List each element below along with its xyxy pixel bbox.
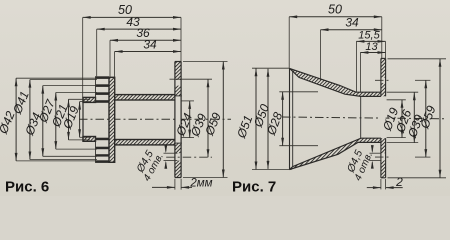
fig7 dimension O19 extensions (387, 99, 406, 101)
fig6 bottom hole axis (166, 156, 212, 158)
fig6 main tube lower wall (115, 140, 176, 145)
fig7 dimension O39 extensions (415, 79, 430, 81)
fig6 ribbed section lower (96, 138, 110, 141)
fig7 dimension 34 (321, 29, 382, 31)
fig7 dimension O50 (267, 69, 269, 169)
fig6 extension line tube start (114, 52, 116, 95)
fig6 hole edge lines (164, 152, 178, 154)
fig6 dimension O34 extension bottom (43, 155, 97, 157)
fig7 top hole axis (375, 79, 391, 81)
fig7 dimension 15,5 (356, 40, 385, 42)
fig7 hole callout arrows (371, 147, 373, 152)
fig7 extension line flange right (385, 41, 387, 58)
fig7 extension line 15,5 (355, 41, 357, 92)
svg-text:2: 2 (395, 175, 403, 189)
fig7 big end face (289, 68, 291, 169)
fig6 dimension O19 extension top (80, 101, 90, 103)
fig6 axis centerline (79, 118, 231, 120)
fig7 dimension O51 extensions (252, 67, 290, 69)
fig6 dimension O34 extension top (43, 85, 97, 87)
fig6 dimension 34 (115, 51, 181, 53)
svg-text:Рис. 7: Рис. 7 (232, 179, 276, 196)
fig7 extension line big end (288, 17, 290, 69)
fig6 dimension O19 (79, 102, 81, 138)
fig6 extension line right face (180, 17, 182, 61)
fig6 extension line rib start (96, 29, 98, 76)
fig7 dimension O26 extensions (387, 91, 419, 93)
fig7 bottom hole axis (375, 156, 391, 158)
fig6 wall thickness 2mm dimension (152, 186, 175, 188)
fig7 axis centerline (282, 117, 446, 119)
fig7 dimension O59 (439, 59, 441, 178)
fig7 hole edge lines (370, 152, 382, 154)
fig6 dimension O24 extensions (182, 100, 195, 102)
fig7 dimension O19 (401, 100, 403, 138)
fig6 dimension O27 extension top (56, 92, 97, 94)
fig6 extension line left end (82, 17, 84, 97)
fig6 flange disc (109, 77, 115, 162)
fig6 dimension 50 (83, 16, 181, 18)
fig6 dimension O59 (222, 62, 224, 178)
fig6 dimension O34 (42, 86, 44, 157)
fig6 dimension O27 extension bottom (56, 148, 97, 150)
fig6 rim flange Ø59 (175, 62, 181, 178)
fig6 dimension O27 (55, 93, 57, 150)
fig6 main tube upper wall (115, 95, 176, 100)
fig6 dimension O19 extension bottom (80, 136, 90, 138)
fig6 rim hole edges (174, 95, 182, 97)
fig6 dimension O42 extension bottom (16, 160, 97, 162)
fig7 dimension O28 extensions (279, 91, 318, 93)
fig7 neck bore end face (360, 96, 362, 138)
fig6 dimension 43 (97, 28, 181, 30)
fig7 dimension O51 (255, 68, 257, 169)
fig6 dimension O41 (29, 80, 31, 160)
svg-text:2мм: 2мм (189, 178, 212, 190)
fig6 dimension O41 extension bottom (30, 159, 97, 161)
fig6 hole callout arrows (165, 147, 167, 152)
fig6 dimension O42 extension top (16, 77, 97, 79)
fig7 flange disc Ø59 (381, 58, 386, 179)
fig7 extension line flange left (381, 17, 383, 59)
fig7 extension line neck start (359, 53, 361, 93)
fig6 dimension O21 extension top (69, 98, 91, 100)
fig6 ribbed section upper (96, 76, 110, 79)
fig6 dimension 36 (110, 39, 181, 41)
fig6 hub left end face (82, 97, 84, 141)
fig7 dimension O39 (425, 80, 427, 157)
fig7 cone upper wall (290, 68, 382, 96)
fig6 dimension O24 (189, 101, 191, 138)
fig7 dimension 13 (360, 52, 385, 54)
fig7 wall thickness extension lines (380, 179, 382, 189)
svg-text:13: 13 (365, 41, 378, 53)
fig6 dimension O42 (15, 78, 17, 161)
svg-text:50: 50 (328, 3, 342, 17)
fig7 dimension 50 (289, 16, 382, 18)
fig7 extension line cone point 34 (320, 30, 322, 80)
svg-text:34: 34 (143, 37, 157, 51)
fig7 dimension O59 extensions (388, 58, 447, 60)
svg-text:34: 34 (345, 16, 359, 30)
fig7 cone lower wall (290, 138, 382, 169)
svg-text:Рис. 6: Рис. 6 (5, 179, 49, 196)
fig6 hub tube lower wall (83, 137, 96, 142)
fig6 dimension O59 extensions (183, 61, 228, 63)
fig7 wall thickness 2 dimension (367, 187, 381, 189)
fig6 dimension O21 extension bottom (69, 139, 91, 141)
fig6 hub tube upper wall (83, 97, 96, 102)
fig7 dimension O26 (413, 92, 415, 142)
fig6 wall thickness extension lines (174, 179, 176, 190)
fig6 extension line flange left (109, 40, 111, 77)
fig6 dimension O39 top extension (170, 78, 213, 80)
fig6 dimension O39 (207, 79, 209, 157)
fig6 dimension O41 extension top (30, 79, 97, 81)
fig6 dimension O21 (68, 99, 70, 140)
svg-text:15,5: 15,5 (358, 30, 380, 42)
fig7 dimension O28 (282, 92, 284, 146)
